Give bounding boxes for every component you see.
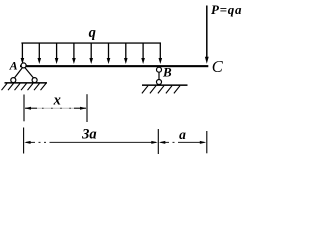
svg-text:q: q	[89, 25, 96, 41]
svg-text:a: a	[179, 127, 186, 142]
svg-text:3a: 3a	[81, 127, 97, 143]
svg-text:P=qa: P=qa	[211, 2, 242, 17]
svg-text:B: B	[162, 64, 172, 79]
svg-text:C: C	[212, 57, 224, 76]
svg-text:x: x	[53, 93, 61, 109]
svg-text:A: A	[9, 59, 18, 73]
